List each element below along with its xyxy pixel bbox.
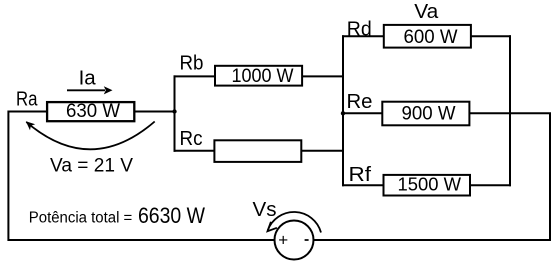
svg-text:Va = 21 V: Va = 21 V xyxy=(50,155,133,176)
svg-text:Rf: Rf xyxy=(349,164,372,186)
svg-text:1000 W: 1000 W xyxy=(232,66,294,87)
svg-text:6630 W: 6630 W xyxy=(138,203,205,228)
svg-text:1500 W: 1500 W xyxy=(398,174,462,194)
svg-text:Potência total =: Potência total = xyxy=(29,210,133,227)
svg-text:Rc: Rc xyxy=(180,128,203,150)
svg-text:900 W: 900 W xyxy=(402,104,456,125)
svg-text:Va: Va xyxy=(414,1,439,23)
svg-text:Ia: Ia xyxy=(79,67,97,90)
svg-text:Rd: Rd xyxy=(347,19,372,41)
svg-text:Vs: Vs xyxy=(253,199,277,221)
svg-text:Rb: Rb xyxy=(180,53,204,75)
svg-text:630 W: 630 W xyxy=(66,101,120,122)
svg-text:+: + xyxy=(278,231,288,250)
svg-text:Ra: Ra xyxy=(16,88,38,110)
svg-text:Re: Re xyxy=(347,91,373,113)
svg-text:600 W: 600 W xyxy=(404,27,458,48)
